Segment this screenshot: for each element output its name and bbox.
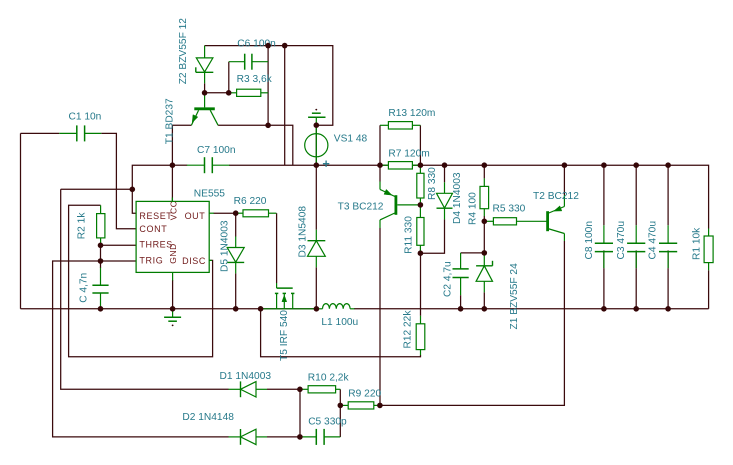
plus sign: [323, 163, 329, 165]
junction: [98, 258, 104, 264]
wire: [563, 165, 565, 195]
wire: [299, 389, 301, 437]
junction: [377, 403, 383, 409]
IC NE555: [136, 201, 209, 272]
svg-text:T2 BC212: T2 BC212: [533, 191, 579, 202]
wire: [172, 164, 187, 166]
svg-text:C8 100n: C8 100n: [584, 221, 595, 260]
junction: [562, 162, 568, 168]
junction: [282, 43, 288, 49]
junction: [458, 306, 464, 312]
wire: [228, 62, 230, 93]
wire: [379, 125, 381, 165]
resistor R3: [229, 92, 237, 94]
transistor T5: [276, 283, 278, 288]
wire: [214, 212, 236, 214]
junction: [314, 162, 320, 168]
wire: [171, 165, 173, 201]
wire: [267, 388, 300, 390]
wire: [21, 132, 60, 134]
capacitor C5: [300, 436, 316, 438]
wire: [635, 268, 637, 309]
svg-text:R4 100: R4 100: [468, 192, 479, 225]
svg-text:T5 IRF 540: T5 IRF 540: [279, 310, 290, 361]
svg-text:D3 1N5408: D3 1N5408: [298, 206, 309, 258]
wire: [267, 436, 300, 438]
pin stub VCC: [171, 198, 173, 202]
svg-text:CONT: CONT: [139, 224, 167, 234]
wire: [667, 165, 669, 225]
junction: [418, 250, 424, 256]
junction: [482, 250, 488, 256]
svg-text:C1 10n: C1 10n: [69, 111, 102, 122]
wire: [132, 165, 172, 213]
capacitor C6: [229, 61, 245, 63]
junction: [258, 306, 264, 312]
svg-text:C2 4,7u: C2 4,7u: [442, 261, 453, 297]
svg-text:R3 3,6k: R3 3,6k: [237, 74, 273, 85]
junction: [226, 90, 232, 96]
wire: [483, 292, 485, 309]
svg-text:R8 330: R8 330: [427, 167, 438, 200]
wire: [379, 165, 381, 181]
svg-text:NE555: NE555: [194, 188, 225, 199]
svg-text:C7 100n: C7 100n: [197, 145, 236, 156]
wire: [284, 46, 286, 166]
wire: [315, 165, 317, 230]
pin stub GND: [172, 272, 174, 280]
zener Z1: [483, 254, 485, 266]
pin stub DISC: [209, 259, 212, 261]
diode D2: [229, 436, 241, 438]
svg-text:D2 1N4148: D2 1N4148: [182, 412, 234, 423]
junction: [665, 306, 671, 312]
capacitor C7: [187, 164, 205, 166]
capacitor C2: [460, 253, 462, 269]
junction: [482, 219, 488, 225]
source VS1: [305, 134, 328, 157]
resistor R13: [380, 124, 388, 126]
junction: [297, 387, 303, 393]
junction: [233, 210, 239, 216]
junction: [482, 306, 488, 312]
svg-text:R7 120m: R7 120m: [388, 148, 429, 159]
wire: [603, 250, 605, 268]
diode D1: [229, 388, 241, 390]
wire: [708, 270, 710, 309]
wire: [69, 205, 213, 356]
svg-text:R12 22k: R12 22k: [403, 310, 414, 349]
junction: [265, 123, 271, 129]
resistor R6: [236, 212, 243, 214]
junction: [297, 434, 303, 440]
diode D5: [235, 237, 237, 248]
wire: [235, 213, 237, 236]
wire: [667, 268, 669, 309]
junction: [314, 122, 320, 128]
svg-text:R9 220: R9 220: [348, 389, 381, 400]
svg-text:TRIG: TRIG: [139, 255, 163, 265]
junction: [170, 306, 176, 312]
svg-text:VCC: VCC: [168, 201, 178, 221]
wire: [53, 261, 229, 437]
svg-text:R2 1k: R2 1k: [76, 212, 87, 240]
capacitor C: [100, 268, 102, 286]
resistor R11: [419, 205, 421, 218]
svg-text:R6 220: R6 220: [234, 196, 267, 207]
wire: [635, 250, 637, 268]
capacitor C1: [59, 132, 77, 134]
svg-text:R1 10k: R1 10k: [692, 227, 703, 260]
wire: [354, 308, 709, 310]
junction: [377, 162, 383, 168]
junction: [170, 162, 176, 168]
diode D3: [315, 230, 317, 241]
resistor R8: [419, 165, 421, 173]
zener Z2: [204, 46, 206, 58]
svg-text:C4 470u: C4 470u: [648, 221, 659, 260]
svg-text:T1 BD237: T1 BD237: [165, 98, 176, 144]
wire: [315, 125, 317, 165]
wire: [635, 165, 637, 225]
wire: [101, 244, 137, 246]
svg-text:L1 100u: L1 100u: [321, 317, 358, 328]
wire: [218, 124, 268, 126]
wire: [229, 165, 709, 228]
wire: [483, 165, 485, 178]
svg-text:T3 BC212: T3 BC212: [338, 201, 384, 212]
wire: [101, 133, 136, 228]
junction: [418, 162, 424, 168]
resistor R4: [483, 178, 485, 186]
transistor T2: [563, 195, 565, 207]
ground: [315, 109, 317, 111]
wire: [420, 219, 444, 253]
wire: [667, 250, 669, 268]
wire: [276, 213, 278, 283]
wire: [483, 216, 485, 253]
junction: [418, 202, 424, 208]
wire: [444, 165, 446, 182]
junction: [98, 243, 104, 249]
junction: [130, 187, 136, 193]
junction: [482, 162, 488, 168]
resistor R9: [340, 404, 348, 406]
svg-text:D4 1N4003: D4 1N4003: [452, 172, 463, 224]
wire: [379, 228, 381, 405]
wire: [172, 280, 174, 309]
resistor R7: [380, 164, 388, 166]
svg-text:Z1 BZV55F 24: Z1 BZV55F 24: [509, 263, 520, 330]
wire: [603, 165, 605, 225]
wire: [461, 252, 485, 254]
diode D4: [444, 182, 446, 193]
capacitor C4: [667, 225, 669, 243]
wire: [204, 83, 206, 93]
resistor R2: [100, 205, 102, 213]
junction: [442, 162, 448, 168]
junction: [665, 162, 671, 168]
wire: [205, 46, 333, 126]
wire: [101, 260, 137, 262]
capacitor C8: [603, 225, 605, 243]
svg-text:C 4,7n: C 4,7n: [78, 273, 89, 303]
junction: [233, 306, 239, 312]
svg-text:C5 330p: C5 330p: [308, 417, 347, 428]
junction: [265, 43, 271, 49]
wire: [315, 267, 317, 309]
svg-text:R13 120m: R13 120m: [388, 108, 435, 119]
junction: [98, 306, 104, 312]
wire: [172, 125, 191, 165]
junction: [601, 306, 607, 312]
wire: [420, 253, 422, 316]
wire: [460, 295, 462, 309]
wire: [205, 92, 229, 94]
svg-text:Z2 BZV55F 12: Z2 BZV55F 12: [178, 18, 189, 85]
junction: [633, 306, 639, 312]
svg-text:GND: GND: [168, 243, 178, 264]
wire: [21, 308, 317, 310]
wire: [419, 125, 421, 165]
capacitor C3: [635, 225, 637, 243]
wire: [61, 188, 133, 190]
resistor R1: [708, 229, 710, 237]
wire: [100, 245, 102, 268]
wire: [339, 389, 341, 437]
wire: [235, 273, 237, 308]
transistor T3: [379, 182, 381, 190]
junction: [601, 162, 607, 168]
svg-text:R10 2,2k: R10 2,2k: [308, 373, 350, 384]
wire: [603, 268, 605, 309]
resistor R5: [484, 220, 493, 222]
ground: [172, 309, 174, 317]
junction: [338, 403, 344, 409]
svg-text:D5 1N4003: D5 1N4003: [220, 220, 231, 272]
svg-text:VS1 48: VS1 48: [334, 133, 368, 144]
svg-text:C3 470u: C3 470u: [616, 221, 627, 260]
inductor L1: [316, 308, 322, 310]
pin stub OUT: [209, 212, 214, 214]
wire: [261, 309, 421, 357]
wire: [267, 46, 269, 126]
wire: [20, 133, 22, 308]
junction: [202, 90, 208, 96]
resistor R10: [300, 388, 308, 390]
svg-text:D1 1N4003: D1 1N4003: [220, 371, 272, 382]
wire: [61, 189, 229, 389]
svg-text:OUT: OUT: [185, 211, 206, 221]
svg-text:R5 330: R5 330: [493, 203, 526, 214]
resistor R12: [420, 316, 422, 324]
wire: [268, 125, 293, 165]
wire: [380, 241, 564, 405]
svg-text:R11 330: R11 330: [404, 216, 415, 254]
junction: [633, 162, 639, 168]
transistor T1: [204, 93, 206, 108]
svg-text:DISC: DISC: [182, 256, 206, 266]
junction: [314, 306, 320, 312]
